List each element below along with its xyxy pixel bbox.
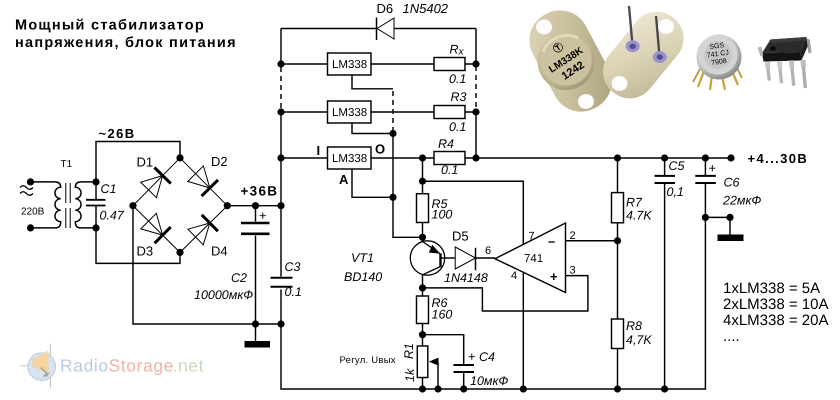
node rail R7 [614, 154, 621, 161]
svg-text:напряжения, блок питания: напряжения, блок питания [15, 35, 237, 51]
node bridge right [224, 202, 231, 209]
svg-text:VT1: VT1 [351, 251, 374, 265]
svg-text:6: 6 [485, 245, 491, 257]
node rail C4 [460, 385, 467, 392]
wire adj dashed [392, 91, 394, 131]
node collector [419, 284, 426, 291]
node adj12 [389, 130, 396, 137]
svg-text:0.1: 0.1 [449, 120, 466, 134]
node rail C5 bottom [661, 385, 668, 392]
svg-text:4: 4 [511, 270, 517, 282]
node row3 right [472, 154, 479, 161]
svg-text:C5: C5 [669, 159, 685, 173]
resistor R6 [417, 288, 453, 335]
svg-text:+: + [550, 269, 558, 284]
svg-text:LM338: LM338 [332, 107, 367, 119]
svg-text:10мкФ: 10мкФ [470, 374, 508, 388]
photo TO-3 back [592, 1, 694, 109]
wire right bus [475, 29, 477, 159]
node rail end [727, 154, 734, 161]
diode D1 [137, 155, 171, 198]
svg-text:3: 3 [570, 265, 576, 277]
svg-text:2xLM338 = 10A: 2xLM338 = 10A [723, 296, 829, 313]
wire left bus dashed [280, 67, 282, 109]
wire top bus D6 [281, 28, 476, 30]
regulator U2 LM338 row1 [328, 53, 372, 75]
node opamp supply tap [419, 178, 426, 185]
svg-text:R3: R3 [451, 90, 467, 104]
resistor R4 [434, 137, 465, 177]
wire right bus dashed [475, 66, 477, 108]
wire pin4 down [522, 273, 524, 389]
svg-text:A: A [339, 172, 349, 187]
diode D3 [137, 213, 171, 258]
svg-text:0,1: 0,1 [667, 185, 684, 199]
svg-text:Мощный стабилизатор: Мощный стабилизатор [15, 18, 205, 34]
wire adj to R5 node [393, 197, 423, 237]
photo TO-3 front LM338K [519, 0, 622, 122]
resistor R5 [417, 181, 453, 237]
ground under C2 [245, 324, 271, 348]
node rail R1 [419, 385, 426, 392]
svg-text:0.1: 0.1 [285, 285, 302, 299]
wire row3 in [281, 157, 328, 159]
svg-text:D1: D1 [137, 155, 154, 170]
svg-text:1N4148: 1N4148 [444, 271, 488, 285]
svg-text:+: + [259, 208, 267, 223]
node row2 left [277, 108, 284, 115]
wire row3 out [371, 157, 731, 159]
diode D2 [188, 154, 228, 196]
capacitor C5 [655, 158, 685, 389]
svg-text:Radio: Radio [60, 356, 109, 376]
diode D6 [377, 1, 449, 40]
wire left bus [280, 29, 282, 325]
node adj3 [389, 194, 396, 201]
resistor R8 [612, 241, 653, 389]
node row2 right [472, 108, 479, 115]
potentiometer R1 [340, 335, 439, 389]
diode bridge edges [133, 158, 227, 253]
svg-text:R7: R7 [626, 196, 643, 210]
wire collector to +input [423, 276, 588, 311]
capacitor C2 [194, 206, 270, 324]
svg-text:7: 7 [529, 231, 535, 243]
node rail C5 [661, 154, 668, 161]
svg-text:D4: D4 [211, 244, 228, 259]
wire row1 in [281, 63, 328, 65]
svg-text:100: 100 [432, 208, 453, 222]
regulator U3 LM338 row2 [328, 101, 372, 123]
wire adj bus [392, 134, 394, 198]
svg-text:+: + [468, 349, 476, 364]
svg-text:0.1: 0.1 [441, 163, 458, 177]
svg-text:R4: R4 [438, 137, 454, 151]
op-amp U1 741 [485, 223, 576, 293]
diode D5 [444, 229, 495, 286]
svg-text:D2: D2 [211, 154, 228, 169]
svg-text:R8: R8 [626, 319, 642, 333]
wire R4out down [422, 158, 424, 181]
svg-text:1N5402: 1N5402 [403, 1, 449, 16]
transistor Q1 VT1 BD140 [344, 237, 445, 288]
wire pin2 to divider [566, 240, 618, 242]
svg-text:I: I [317, 143, 321, 158]
node row1 right [472, 60, 479, 67]
node row1 left [277, 60, 284, 67]
resistor Rx [434, 43, 466, 87]
node pin2 junction [614, 237, 621, 244]
svg-text:D3: D3 [137, 244, 154, 259]
wire sec bottom to bridge [96, 228, 180, 264]
svg-text:C1: C1 [101, 182, 117, 196]
svg-text:741: 741 [524, 253, 543, 265]
svg-text:10000мкФ: 10000мкФ [194, 288, 253, 302]
svg-text:LM338: LM338 [332, 153, 367, 165]
svg-text:+: + [709, 161, 717, 176]
svg-text:1k: 1k [403, 368, 417, 382]
node rail pin4 [520, 385, 527, 392]
node R4 out [419, 154, 426, 161]
svg-text:C6: C6 [724, 176, 740, 190]
node bridge left [129, 202, 136, 209]
diode D4 [188, 215, 228, 259]
node C3 bottom [277, 320, 284, 327]
svg-text:4.7K: 4.7K [626, 209, 652, 223]
wire bridge minus down [133, 206, 281, 324]
wire sec top to bridge [96, 142, 180, 182]
wire row3 adj [352, 169, 393, 197]
title [15, 18, 237, 52]
node rail C6 [702, 154, 709, 161]
node C2 top [252, 202, 259, 209]
ground under C6 [705, 217, 743, 241]
capacitor C4 [423, 335, 509, 389]
svg-text:....: .... [723, 328, 740, 345]
svg-text:Регул. Uвых: Регул. Uвых [340, 355, 396, 366]
wire +36V [227, 205, 281, 207]
svg-text:C2: C2 [231, 271, 247, 285]
svg-text:160: 160 [432, 308, 453, 322]
transformer T1 [31, 159, 97, 228]
svg-text:BD140: BD140 [344, 270, 382, 284]
wire row2 adj [352, 123, 393, 134]
svg-text:T1: T1 [61, 159, 73, 170]
svg-text:+4...30В: +4...30В [748, 151, 809, 166]
svg-text:0.47: 0.47 [100, 209, 125, 223]
svg-text:0.1: 0.1 [449, 72, 466, 86]
notes text [723, 280, 829, 345]
node R5 bottom [419, 234, 426, 241]
wire to pin7 [423, 181, 524, 244]
node rail wiper [434, 385, 441, 392]
svg-text:~26В: ~26В [99, 126, 136, 141]
svg-text:.net: .net [173, 356, 205, 376]
svg-text:–: – [548, 234, 555, 249]
svg-text:+36В: +36В [241, 184, 279, 199]
wire bottom rail [281, 217, 705, 389]
svg-text:C3: C3 [285, 260, 301, 274]
node ground stub [726, 214, 733, 221]
node C6 bottom [702, 214, 709, 221]
node T1 sec bottom [92, 224, 99, 231]
svg-text:LM338: LM338 [332, 59, 367, 71]
node +36 bus [277, 202, 284, 209]
svg-text:4,7K: 4,7K [626, 333, 652, 347]
svg-text:C4: C4 [479, 350, 495, 364]
resistor R7 [612, 158, 653, 241]
node row3 left [277, 154, 284, 161]
AC source symbol [20, 186, 33, 196]
svg-text:220В: 220В [21, 207, 45, 218]
node T1 sec top [92, 178, 99, 185]
wire row1 adj [352, 75, 393, 89]
node R6 bottom [419, 331, 426, 338]
svg-text:22мкФ: 22мкФ [722, 194, 761, 208]
svg-text:O: O [375, 142, 385, 157]
photo DIP-8 [758, 37, 812, 88]
svg-text:D6: D6 [377, 1, 394, 16]
node bridge top [176, 154, 183, 161]
photo TO-99 741 [693, 35, 742, 91]
svg-text:1xLM338 = 5A: 1xLM338 = 5A [723, 280, 820, 297]
capacitor C3 [271, 260, 302, 299]
capacitor C6 [695, 158, 761, 217]
wire row2 in [281, 111, 328, 113]
node bridge bottom [176, 249, 183, 256]
node T1 left bottom [27, 224, 34, 231]
wire row1 out [371, 63, 476, 65]
node T1 left top [27, 178, 34, 185]
node rail R8 [614, 385, 621, 392]
svg-text:R1: R1 [402, 343, 416, 359]
resistor R3 [434, 90, 467, 134]
svg-text:4xLM338 = 20A: 4xLM338 = 20A [723, 312, 829, 329]
regulator U4 LM338 row3 [317, 142, 386, 188]
node C2 bottom [252, 320, 259, 327]
wire row2 out [371, 111, 476, 113]
wire base to D5 [441, 257, 456, 259]
svg-text:D5: D5 [452, 229, 469, 244]
logo RadioStorage [21, 344, 205, 389]
svg-text:Storage: Storage [109, 356, 175, 376]
capacitor C1 [86, 182, 125, 228]
